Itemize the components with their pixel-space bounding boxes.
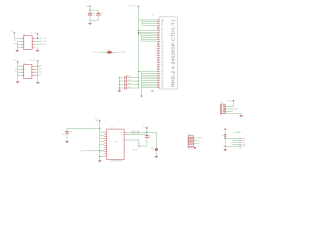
svg-text:3V3: 3V3 — [86, 6, 89, 8]
svg-text:VCC_USB: VCC_USB — [93, 52, 102, 54]
svg-text:VCC_3V3: VCC_3V3 — [117, 52, 125, 54]
svg-text:RHD-2.4-24026SP-CTD1-T1: RHD-2.4-24026SP-CTD1-T1 — [170, 19, 176, 87]
